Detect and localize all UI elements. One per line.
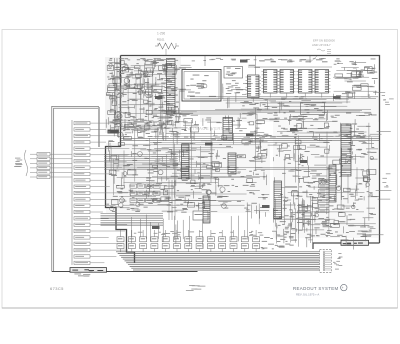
off-page reference right 1	[382, 95, 394, 105]
page number	[157, 32, 165, 36]
svg-text:673C5: 673C5	[50, 286, 64, 291]
gate array box	[161, 95, 258, 134]
svg-text:4 TRACE VERT: 4 TRACE VERT	[188, 126, 224, 131]
note crt readout	[186, 285, 206, 291]
character position bus	[255, 168, 332, 172]
shift register U1130	[167, 59, 176, 115]
sweep input connector	[14, 150, 72, 179]
termination resistor row	[117, 230, 297, 252]
svg-text:1-296: 1-296	[157, 32, 165, 36]
center logic cluster	[106, 115, 283, 218]
matrix row cluster	[215, 96, 371, 129]
svg-text:AND UP ONLY: AND UP ONLY	[312, 43, 331, 47]
board id 673C5	[50, 286, 64, 291]
main board outline	[106, 56, 380, 264]
latch U1450	[329, 165, 336, 202]
timing wire pair	[153, 110, 362, 112]
register U1270	[203, 196, 210, 223]
board shading	[105, 57, 379, 238]
parts list note	[348, 225, 372, 236]
strobe cluster	[282, 196, 344, 247]
effective serial number note	[311, 39, 335, 62]
svg-text:+: +	[342, 286, 344, 290]
timing box U1340	[223, 67, 253, 109]
column data bundle	[101, 214, 239, 248]
svg-text:READOUT SYSTEM: READOUT SYSTEM	[293, 286, 339, 291]
column buffer IC U1250	[246, 65, 262, 102]
column buffer IC U1321	[297, 59, 315, 97]
svg-text:REV JUL 1975 + A: REV JUL 1975 + A	[296, 292, 319, 296]
subtitle revision	[296, 292, 319, 296]
connector label column J1180	[319, 180, 330, 213]
col matrix board outline	[52, 106, 198, 271]
time counter box	[193, 211, 208, 220]
right logic cluster	[273, 113, 391, 250]
pull-up network right of IC row	[333, 58, 385, 103]
column buffer IC U1311	[278, 59, 296, 97]
input amplifier cluster	[106, 58, 197, 144]
col matrix board label strip	[70, 268, 107, 277]
annotation row under border	[128, 58, 326, 62]
column buffer IC U1301	[262, 59, 280, 97]
row bus	[116, 252, 320, 270]
resistor R1101	[155, 38, 179, 56]
data bus pair	[121, 135, 379, 141]
clock feed wire	[205, 56, 310, 75]
row fan-in bundle	[104, 155, 178, 170]
title READOUT SYSTEM	[293, 284, 347, 291]
holdoff IC U1240	[228, 153, 236, 174]
column buffer IC U1331	[313, 59, 331, 97]
bottom right outline segment	[313, 243, 380, 249]
ic row supply wire	[248, 66, 332, 68]
auxiliary long wires	[121, 136, 379, 145]
row wire label column	[72, 120, 129, 265]
driver U1460	[274, 181, 282, 219]
column decode label grid	[130, 184, 160, 202]
test point labels	[152, 60, 341, 230]
off-page reference right 2	[382, 173, 390, 187]
character generator U1400	[182, 70, 221, 102]
row bus connector P1190	[320, 249, 343, 272]
svg-text:R1101: R1101	[157, 38, 165, 42]
decoder U1160	[223, 118, 233, 141]
clock distribution pair	[190, 97, 378, 99]
interconnect board label	[341, 240, 369, 245]
strobe drop wires	[247, 198, 304, 247]
shift register U1440	[341, 124, 351, 176]
svg-text:EFF SN B250000: EFF SN B250000	[313, 39, 335, 43]
column drop wires	[169, 180, 175, 220]
counter U1150	[182, 144, 190, 179]
